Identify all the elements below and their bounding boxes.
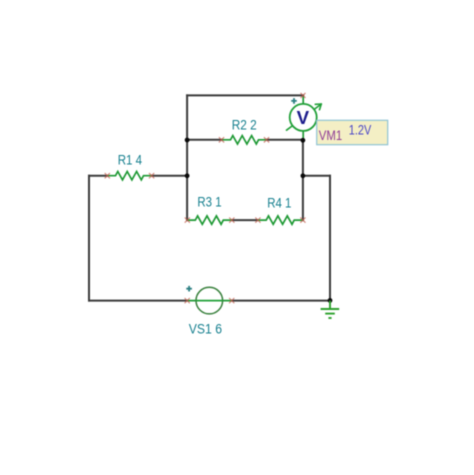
svg-text:VM1: VM1 (319, 128, 342, 143)
svg-text:R1 4: R1 4 (118, 152, 143, 168)
svg-text:R4 1: R4 1 (267, 195, 291, 211)
svg-text:1.2V: 1.2V (349, 122, 372, 138)
svg-text:VS1 6: VS1 6 (189, 320, 222, 336)
svg-text:R2 2: R2 2 (232, 116, 257, 132)
svg-text:V: V (297, 107, 310, 128)
svg-text:R3 1: R3 1 (197, 193, 221, 209)
